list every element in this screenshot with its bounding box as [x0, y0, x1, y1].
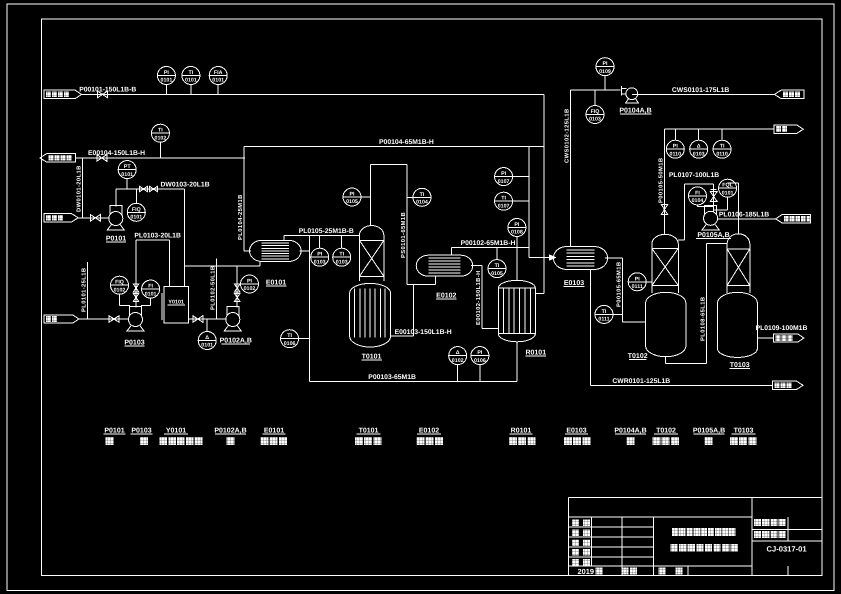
svg-text:Y0101: Y0101	[168, 300, 184, 306]
svg-text:0101: 0101	[130, 215, 142, 221]
instrument PI-0102	[237, 275, 258, 293]
svg-text:PL0106-185L1B: PL0106-185L1B	[719, 211, 769, 218]
svg-text:PI: PI	[349, 192, 355, 198]
valve on tail gas riser	[661, 205, 668, 215]
title block row label 审核	[572, 549, 590, 556]
pipe T0103 overhead recycle	[728, 183, 739, 234]
svg-text:0107: 0107	[498, 203, 510, 209]
svg-text:TI: TI	[189, 70, 194, 76]
outlet flag 甲醛水溶液 (right)	[776, 215, 812, 223]
svg-text:PI: PI	[317, 252, 323, 258]
svg-text:0111: 0111	[598, 317, 609, 323]
svg-text:0102: 0102	[244, 286, 256, 292]
svg-text:Δ: Δ	[205, 335, 209, 341]
svg-text:0105: 0105	[491, 271, 503, 277]
label PL0103-20L1B	[134, 232, 181, 239]
svg-text:PL0108-65L1B: PL0108-65L1B	[699, 297, 706, 341]
instrument TI-0106	[281, 330, 310, 348]
svg-text:0101: 0101	[121, 172, 133, 178]
svg-text:FIQ: FIQ	[132, 207, 141, 213]
pipe T0101 overhead duct to E0102	[370, 164, 435, 284]
valve pair on DW0103 line	[140, 186, 158, 192]
pipe E00103 line from T0101 bottoms	[391, 284, 414, 336]
svg-text:PI: PI	[164, 70, 170, 76]
svg-text:TI: TI	[501, 196, 506, 202]
svg-text:0110: 0110	[670, 151, 682, 157]
svg-text:0106: 0106	[474, 358, 486, 364]
pipe R0101 top riser	[516, 248, 518, 280]
outlet flag 冷凝水站 (right)	[775, 90, 805, 98]
svg-text:T0103: T0103	[730, 362, 750, 369]
instrument PI-0108	[508, 219, 526, 248]
label E0103	[564, 280, 585, 287]
svg-text:TI: TI	[495, 263, 500, 269]
svg-text:P00104-65M1B-H: P00104-65M1B-H	[379, 139, 434, 146]
equipment label T0102 吸收塔	[653, 428, 679, 445]
title block row label 设计	[572, 529, 590, 536]
svg-text:Δ: Δ	[456, 350, 460, 356]
valve on steam line	[109, 316, 119, 323]
svg-text:E00104-150L1B-H: E00104-150L1B-H	[88, 150, 145, 157]
svg-text:0103: 0103	[314, 259, 326, 265]
inlet flag 蒸汽 (arrow 4)	[44, 315, 79, 323]
vertical label PL0104-25M1B	[237, 194, 244, 240]
title block row label 校核	[572, 539, 590, 546]
pump P0104A,B	[622, 86, 639, 103]
label PL0107-100L1B	[669, 172, 719, 179]
instrument FIA-0101	[209, 67, 227, 95]
pump P0105A,B	[702, 205, 719, 230]
column T0102 absorber	[646, 234, 686, 356]
svg-text:2019: 2019	[578, 567, 594, 576]
svg-text:0102: 0102	[452, 358, 464, 364]
svg-text:Y0101: Y0101	[166, 428, 186, 435]
svg-text:0102: 0102	[155, 135, 167, 141]
label T0101	[361, 353, 382, 360]
instrument FIQ-0102	[111, 276, 131, 305]
equipment label E0103 冷凝器	[564, 428, 590, 445]
svg-text:0106: 0106	[284, 341, 296, 347]
svg-text:PI: PI	[247, 279, 253, 285]
label P00102-65M1B-H	[461, 240, 516, 247]
svg-text:T0102: T0102	[656, 428, 676, 435]
label E00104-150L1B-H	[88, 150, 145, 157]
pipe P0102 discharge riser to E0101 feed	[236, 266, 238, 308]
svg-text:TI: TI	[158, 128, 163, 134]
pipe P00101 feed drop to R0101	[535, 94, 544, 293]
label CWS0101-175L1B	[672, 87, 730, 94]
title block cell 设计阶段	[754, 531, 786, 538]
arrowhead into E0103	[550, 255, 556, 260]
instrument TI-0110	[713, 129, 731, 158]
equipment label T0101 汽化塔	[355, 428, 381, 445]
svg-text:E00102-150L1B-H: E00102-150L1B-H	[475, 270, 482, 325]
pipe recycle loop left drop into E0101	[244, 147, 251, 251]
label P0103	[124, 340, 144, 347]
pipe P0103 discharge riser with PL0103 loop	[136, 240, 170, 308]
svg-text:FIA: FIA	[214, 70, 223, 76]
instrument PI-0105	[343, 188, 370, 206]
instrument PI-0109	[596, 58, 614, 91]
instrument FIQ-0103	[586, 90, 604, 123]
svg-text:TI: TI	[420, 192, 425, 198]
svg-text:TI: TI	[720, 144, 725, 150]
pipe steam line to pump P0103	[79, 318, 129, 320]
instrument FI-0104	[689, 187, 714, 207]
pump P0103	[127, 307, 144, 332]
pipe P0101 discharge riser	[116, 189, 185, 207]
instrument PI-0101	[157, 67, 175, 95]
outlet flag 尾气 (right)	[774, 125, 804, 133]
svg-text:TI: TI	[602, 309, 607, 315]
equipment label R0101 转化器	[509, 428, 535, 445]
pipe P00105 line E0103 to T0102	[605, 258, 646, 322]
vertical label P00105-65M1B	[615, 262, 622, 307]
svg-text:P0105A,B: P0105A,B	[697, 232, 729, 239]
svg-text:0102: 0102	[114, 287, 126, 293]
label T0102	[628, 353, 648, 360]
svg-text:DW0103-20L1B: DW0103-20L1B	[161, 182, 210, 189]
svg-text:P0104A,B: P0104A,B	[614, 428, 646, 435]
svg-text:P00103-65M1B: P00103-65M1B	[368, 374, 416, 381]
instrument A-0103	[690, 129, 708, 158]
svg-text:CJ-0317-01: CJ-0317-01	[767, 545, 808, 554]
svg-text:E0103: E0103	[564, 280, 584, 287]
vertical label CWS0102-125L1B	[564, 108, 571, 163]
pipe E00102 line E0102 to R0101 side	[471, 266, 498, 329]
svg-text:0111: 0111	[632, 284, 643, 290]
label P0101	[106, 236, 126, 243]
label P00103-65M1B	[368, 374, 416, 381]
valve pair on P0102 discharge	[234, 284, 240, 302]
pipe CWR0101 cooling water return	[591, 269, 773, 385]
svg-text:0104: 0104	[692, 198, 704, 204]
svg-text:PI: PI	[602, 61, 608, 67]
heat exchanger E0101	[250, 240, 302, 261]
svg-text:0103: 0103	[589, 117, 601, 123]
svg-text:0101: 0101	[145, 291, 157, 297]
svg-text:0105: 0105	[346, 199, 358, 205]
svg-text:PL0102-50L1B: PL0102-50L1B	[210, 266, 217, 310]
instrument TI-0104	[407, 188, 431, 206]
svg-text:PS0101-65M1B: PS0101-65M1B	[400, 212, 407, 258]
svg-text:P0102A,B: P0102A,B	[220, 338, 252, 345]
valve pair on P0103 discharge	[133, 284, 139, 302]
instrument PT-0101	[118, 161, 136, 189]
pipe E0101 outlet riser and P00103 connection	[300, 236, 310, 382]
label E0102	[436, 293, 456, 300]
instrument A-0102	[449, 347, 467, 382]
pipe condensate line to pump P0104	[571, 89, 621, 91]
svg-text:E0101: E0101	[264, 428, 284, 435]
label P00104-65M1B-H	[379, 139, 434, 146]
svg-text:T0101: T0101	[362, 353, 382, 360]
pipe DW0103 drop to E0101 feed line	[184, 189, 260, 286]
vertical label E00102-150L1B-H	[475, 270, 482, 325]
svg-text:0109: 0109	[599, 69, 611, 75]
pipe R0101 bottom outlet P00103	[516, 342, 518, 382]
pipe CWS0102 cooling water supply	[570, 90, 572, 246]
label P00101-150L1B-B	[79, 87, 136, 94]
pipe PL0101 vertical line	[87, 262, 89, 319]
svg-text:P00101-150L1B-B: P00101-150L1B-B	[79, 87, 136, 94]
equipment label Y0101 原料缓冲罐	[160, 428, 203, 445]
svg-text:0107: 0107	[498, 179, 510, 185]
svg-text:P0102A,B: P0102A,B	[214, 428, 246, 435]
vertical label PS0101-65M1B	[400, 212, 407, 258]
pipe demin water line to pump P0101	[78, 217, 109, 219]
svg-text:CWS0101-175L1B: CWS0101-175L1B	[672, 87, 730, 94]
pipe tail gas line from T0102 top	[665, 129, 775, 234]
svg-text:PL0104-25M1B: PL0104-25M1B	[237, 194, 244, 240]
svg-text:DW0101-20L1B: DW0101-20L1B	[76, 165, 83, 212]
valve on P00101 line	[98, 91, 108, 98]
pipe DW0101 vertical line	[82, 158, 84, 218]
vertical label PL0102-50L1B	[210, 266, 217, 310]
equipment label P0105A,B 泵	[693, 428, 725, 445]
svg-text:PI: PI	[477, 350, 483, 356]
equipment label P0101 泵	[104, 428, 126, 445]
label T0103	[730, 362, 750, 369]
pipe recycle loop right drop to E0103	[529, 147, 550, 258]
instrument TI-0101	[182, 67, 200, 95]
svg-text:P0103: P0103	[124, 340, 144, 347]
inlet flag 脱盐水 (arrow 3)	[44, 214, 78, 222]
title block grid	[568, 498, 822, 576]
inlet flag 甲醇回流 (arrow 2)	[40, 154, 76, 162]
heat exchanger E0103 condenser	[553, 247, 607, 270]
pump P0101	[107, 206, 124, 231]
svg-text:0108: 0108	[511, 230, 523, 236]
svg-text:R0101: R0101	[511, 428, 532, 435]
instrument FQL-0101	[714, 179, 737, 210]
vessel Y0101 buffer tank	[162, 286, 188, 322]
instrument TI-0102	[151, 124, 169, 158]
equipment label E0101 预热器	[261, 428, 287, 445]
pipe P00101-150L1B-B main line	[81, 93, 544, 95]
svg-text:P0101: P0101	[104, 428, 124, 435]
title block cell 设计项目	[754, 519, 786, 526]
svg-text:0101: 0101	[201, 343, 213, 349]
svg-text:R0101: R0101	[525, 350, 546, 357]
svg-text:PI: PI	[635, 276, 641, 282]
pipe PL0106 product line to flag	[718, 218, 776, 220]
label P0102A,B	[220, 338, 252, 345]
svg-text:E0102: E0102	[436, 293, 456, 300]
svg-text:0110: 0110	[716, 151, 728, 157]
svg-text:P0104A,B: P0104A,B	[619, 107, 651, 114]
valve on E00104 line	[97, 155, 107, 162]
vertical label PL0101-25L1B	[81, 268, 88, 312]
label PL0105-25M1B-B	[299, 228, 354, 235]
inlet flag 原料甲醇 (arrow 1)	[44, 90, 81, 98]
svg-text:PL0107-100L1B: PL0107-100L1B	[669, 172, 719, 179]
svg-text:CWS0102-125L1B: CWS0102-125L1B	[564, 108, 571, 163]
svg-text:TI: TI	[287, 333, 292, 339]
pipe CWS0101 pump discharge to flag	[632, 93, 775, 95]
svg-text:PI: PI	[514, 222, 520, 228]
svg-text:0101: 0101	[212, 78, 224, 84]
vertical label PL0108-65L1B	[699, 297, 706, 341]
reactor R0101	[498, 280, 535, 342]
label R0101	[525, 350, 546, 357]
outlet flag 冷却水 (right bottom)	[773, 381, 804, 389]
svg-text:Δ: Δ	[697, 144, 701, 150]
label PL0106-185L1B	[719, 211, 769, 218]
title text 管道及仪表流程图	[671, 544, 738, 552]
svg-text:0101: 0101	[161, 78, 173, 84]
pipe PL0105 vapor line to T0101	[284, 236, 359, 241]
svg-text:PL0109-100M1B: PL0109-100M1B	[756, 325, 808, 332]
title block scale 比例	[659, 568, 683, 575]
equipment label P0104A,B 泵	[614, 428, 646, 445]
svg-text:P00105-50M1B: P00105-50M1B	[658, 158, 665, 203]
label E00103-150L1B-H	[395, 329, 452, 336]
title text 甲醇氧化制甲醛装置	[672, 528, 736, 536]
equipment label T0103 解吸塔	[730, 428, 756, 445]
svg-text:PI: PI	[673, 144, 679, 150]
pipe PL0109 T0103 bottoms to flag	[757, 337, 773, 339]
column T0101 vaporizer	[350, 226, 391, 347]
svg-text:FQL: FQL	[722, 183, 733, 189]
svg-text:E0103: E0103	[566, 428, 586, 435]
pipe PL0107 absorber overhead to pump P0105	[678, 184, 714, 240]
instrument PI-0107	[495, 168, 529, 186]
svg-text:PL0101-25L1B: PL0101-25L1B	[81, 268, 88, 312]
instrument PI-0106	[471, 347, 489, 382]
svg-text:0104: 0104	[416, 200, 428, 206]
label P0104A,B	[619, 107, 651, 114]
heat exchanger E0102	[416, 255, 473, 276]
svg-text:PI: PI	[501, 171, 507, 177]
svg-text:T0103: T0103	[734, 428, 754, 435]
drawing number CJ-0317-01	[767, 545, 808, 554]
instrument PI-0110	[666, 129, 684, 158]
pump P0102A,B	[224, 307, 241, 332]
svg-text:TI: TI	[339, 252, 344, 258]
title block row label 审定	[572, 559, 590, 566]
svg-text:E00103-150L1B-H: E00103-150L1B-H	[395, 329, 452, 336]
label PL0109-100M1B	[756, 325, 808, 332]
title block year 2019年	[578, 567, 603, 576]
pipe Y0101 outlet to pump P0102	[188, 318, 226, 320]
label P0105A,B	[696, 232, 731, 239]
svg-text:FIQ: FIQ	[115, 280, 124, 286]
svg-text:CWR0101-125L1B: CWR0101-125L1B	[612, 378, 670, 385]
svg-text:P0103: P0103	[131, 428, 151, 435]
svg-text:PL0105-25M1B-B: PL0105-25M1B-B	[299, 228, 354, 235]
instrument FIQ-0101	[127, 189, 145, 221]
svg-text:0101: 0101	[722, 190, 734, 196]
pipe P00102 line E0102 to R0101	[452, 248, 529, 256]
svg-text:0103: 0103	[693, 151, 705, 157]
svg-text:0103: 0103	[336, 259, 348, 265]
instrument TI-0105	[488, 248, 506, 278]
instrument FI-0101	[141, 280, 160, 305]
pipe PL0102 bypass vertical	[216, 259, 218, 320]
title block row label 制图	[572, 520, 590, 527]
svg-text:FIQ: FIQ	[591, 109, 600, 115]
vertical label DW0101-20L1B	[76, 165, 83, 212]
equipment label P0103 泵	[131, 428, 153, 445]
label CWR0101-125L1B	[612, 378, 670, 385]
title block city 南京	[622, 568, 638, 575]
equipment label E0102 过热器	[417, 428, 443, 445]
instrument PI-0103	[311, 236, 329, 267]
svg-text:PT: PT	[124, 164, 132, 170]
svg-text:E0101: E0101	[266, 279, 286, 286]
equipment label P0102A,B 泵	[214, 428, 246, 445]
svg-text:P00102-65M1B-H: P00102-65M1B-H	[461, 240, 516, 247]
instrument TI-0111	[595, 305, 622, 323]
column T0103 desorber	[718, 234, 758, 358]
outlet flag 解吸液 (right)	[774, 334, 805, 342]
svg-text:T0102: T0102	[628, 353, 648, 360]
control valve on PL0107	[710, 190, 717, 202]
instrument A-0101 analyzer	[198, 319, 216, 350]
instrument PI-0111	[628, 273, 652, 291]
svg-text:FI: FI	[695, 190, 700, 196]
svg-text:P00105-65M1B: P00105-65M1B	[615, 262, 622, 307]
svg-text:E0102: E0102	[419, 428, 439, 435]
svg-text:P0101: P0101	[106, 236, 126, 243]
instrument TI-0103	[333, 236, 351, 267]
pipe E00104-150L1B-H line	[76, 157, 246, 159]
pipe PL0108 T0102 bottoms to T0103	[666, 243, 727, 363]
svg-text:T0101: T0101	[359, 428, 379, 435]
label DW0103-20L1B	[161, 182, 210, 189]
svg-text:P0105A,B: P0105A,B	[693, 428, 725, 435]
valve on demin water line	[90, 215, 100, 222]
valve on Y0101 outlet	[193, 316, 203, 323]
svg-text:FI: FI	[148, 284, 153, 290]
vertical label P00105-50M1B	[658, 158, 665, 203]
svg-text:0101: 0101	[185, 78, 197, 84]
label E0101	[266, 279, 287, 286]
pipe recycle loop top P00104	[244, 146, 544, 148]
svg-text:PL0103-20L1B: PL0103-20L1B	[134, 232, 181, 239]
instrument TI-0107	[495, 192, 529, 210]
pipe P00103 bottom header	[310, 381, 517, 383]
